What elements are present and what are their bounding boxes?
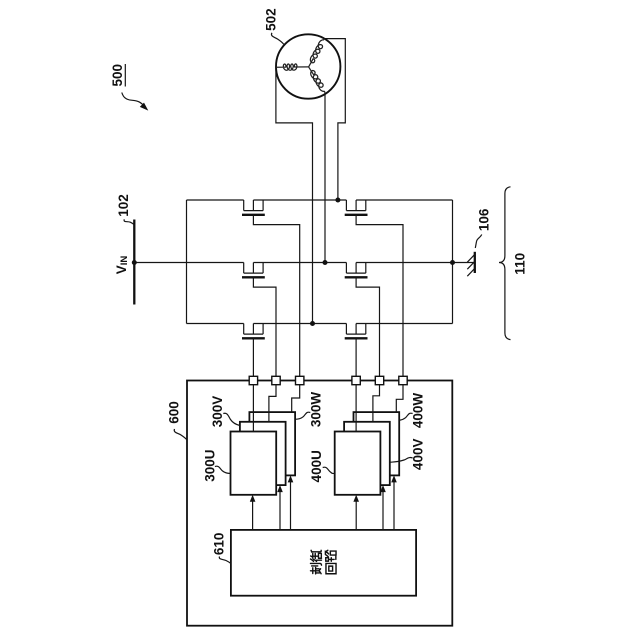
svg-text:VIN: VIN [114, 256, 130, 275]
svg-text:106: 106 [476, 208, 491, 231]
svg-text:300W: 300W [309, 392, 324, 428]
svg-text:300V: 300V [210, 396, 225, 428]
svg-text:500: 500 [110, 64, 125, 87]
svg-text:610: 610 [211, 533, 226, 556]
svg-text:400U: 400U [309, 450, 324, 482]
svg-text:110: 110 [512, 253, 527, 275]
svg-text:400V: 400V [410, 439, 425, 471]
svg-text:502: 502 [264, 8, 279, 31]
svg-text:600: 600 [167, 401, 182, 424]
svg-text:400W: 400W [410, 393, 425, 429]
svg-text:300U: 300U [203, 449, 218, 481]
svg-text:102: 102 [116, 194, 131, 217]
